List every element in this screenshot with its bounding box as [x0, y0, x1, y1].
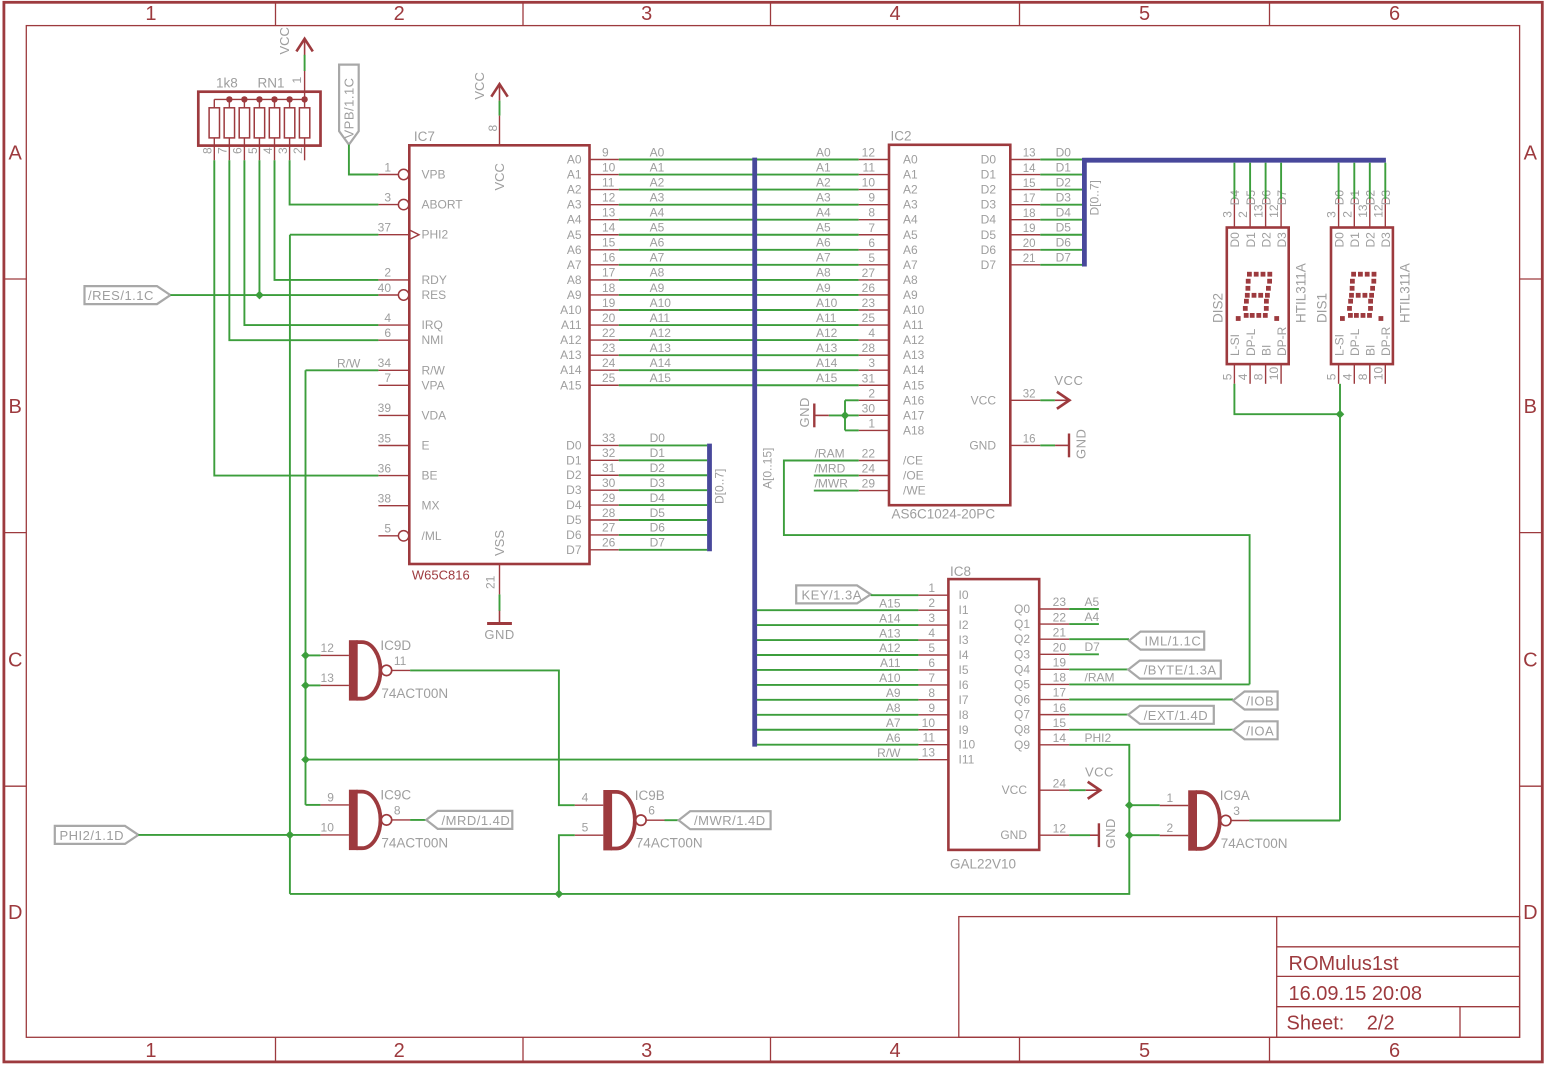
IC8 pin 7 I6 [918, 684, 948, 686]
flag IML/1.1C [1129, 632, 1204, 650]
IC2 pin 29 /WE [859, 490, 889, 492]
IC8 pin 14 Q9 [1039, 744, 1069, 746]
svg-text:A10: A10 [903, 303, 925, 317]
svg-text:3: 3 [384, 190, 391, 204]
wire D4 IC2 to bus [1040, 219, 1082, 221]
svg-text:32: 32 [602, 446, 616, 460]
IC7 pin 13 A4 [590, 219, 619, 221]
svg-text:19: 19 [1023, 223, 1036, 235]
svg-text:10: 10 [602, 160, 616, 174]
wire D5 IC2 to bus [1040, 234, 1082, 236]
svg-text:23: 23 [602, 341, 616, 355]
svg-text:A1: A1 [650, 160, 665, 174]
IC7 pin 4 IRQ [378, 324, 409, 326]
svg-text:A9: A9 [886, 686, 901, 700]
svg-text:A6: A6 [650, 236, 665, 250]
svg-text:2: 2 [291, 147, 305, 154]
wire strobe to IC9A output [1339, 414, 1341, 820]
svg-text:12: 12 [602, 190, 616, 204]
svg-text:IC9B: IC9B [635, 788, 665, 803]
IC7 pin 18 A9 [590, 294, 619, 296]
wire PHI2 net [138, 834, 320, 836]
IC8 pin 17 Q6 [1039, 699, 1069, 701]
svg-text:R/W: R/W [337, 356, 361, 370]
svg-text:5: 5 [246, 147, 260, 154]
svg-text:38: 38 [378, 492, 392, 506]
svg-text:/RAM: /RAM [815, 447, 845, 461]
wire IC2 GND [1040, 444, 1055, 446]
svg-text:A: A [1524, 142, 1538, 164]
svg-text:3: 3 [1233, 804, 1240, 818]
svg-text:VCC: VCC [472, 72, 487, 99]
IC2 pin 15 D2 [1010, 189, 1040, 191]
svg-text:27: 27 [602, 521, 616, 535]
flag /MRD/1.4D [426, 811, 512, 829]
svg-text:17: 17 [1053, 686, 1067, 700]
wire display latch strobes [1234, 384, 1340, 414]
IC8 pin 3 I2 [918, 624, 948, 626]
svg-text:1k8: 1k8 [216, 76, 238, 91]
svg-text:A15: A15 [816, 371, 838, 385]
IC8 pin 23 Q0 [1039, 608, 1069, 610]
svg-text:I1: I1 [959, 603, 969, 617]
svg-text:/EXT/1.4D: /EXT/1.4D [1144, 708, 1208, 723]
wire A13 bus to IC8 [757, 639, 919, 641]
IC7 pin 10 A1 [590, 174, 619, 176]
svg-text:37: 37 [378, 221, 392, 235]
svg-text:A2: A2 [816, 175, 831, 189]
svg-text:VCC: VCC [277, 27, 292, 54]
svg-text:A13: A13 [879, 626, 901, 640]
svg-text:D7: D7 [1056, 251, 1072, 265]
svg-text:GAL22V10: GAL22V10 [950, 857, 1016, 872]
wire A5 from Q0 [1069, 608, 1099, 610]
svg-text:25: 25 [862, 311, 876, 325]
wire D4 to DIS2 [1233, 163, 1235, 199]
wire D2 from IC7 [619, 474, 707, 476]
wire A11 bus to IC8 [757, 669, 919, 671]
svg-text:26: 26 [602, 536, 616, 550]
svg-text:/WE: /WE [903, 484, 926, 498]
svg-text:DP-R: DP-R [1379, 326, 1393, 356]
VCC symbol right of IC8 [1088, 782, 1101, 799]
IC7 pin 16 A7 [590, 264, 619, 266]
svg-text:Q9: Q9 [1014, 738, 1030, 752]
svg-text:MX: MX [422, 499, 440, 513]
svg-text:10: 10 [862, 176, 876, 190]
IC7 pin 22 A12 [590, 339, 619, 341]
svg-text:A2: A2 [903, 183, 918, 197]
svg-text:23: 23 [1053, 595, 1067, 609]
resistor network RN1 box [198, 92, 320, 146]
svg-text:A12: A12 [816, 326, 838, 340]
svg-text:A11: A11 [880, 656, 901, 670]
IC7 pin 26 D7 [590, 549, 619, 551]
svg-text:25: 25 [602, 371, 616, 385]
wire A9 [619, 294, 859, 296]
wire A8 [619, 279, 859, 281]
wire A6 [619, 249, 859, 251]
svg-text:A15: A15 [879, 596, 901, 610]
svg-text:6: 6 [1389, 1040, 1400, 1062]
svg-text:A8: A8 [886, 701, 901, 715]
svg-text:14: 14 [1053, 731, 1067, 745]
svg-text:D1: D1 [1244, 232, 1258, 248]
svg-text:D2: D2 [1364, 232, 1378, 248]
svg-text:A11: A11 [561, 318, 582, 332]
svg-text:GND: GND [1074, 429, 1089, 459]
IC2 pin 8 A4 [859, 219, 889, 221]
svg-text:A15: A15 [560, 378, 582, 392]
IC7 PHI2 clock mark [409, 230, 419, 240]
svg-text:74ACT00N: 74ACT00N [381, 686, 448, 701]
IC7 pin 23 A13 [590, 354, 619, 356]
svg-text:D7: D7 [650, 536, 666, 550]
svg-text:BI: BI [1259, 345, 1273, 356]
wire D0 to DIS1 [1338, 163, 1340, 199]
svg-text:GND: GND [1000, 828, 1027, 842]
wire D1 from IC7 [619, 459, 707, 461]
IC8 pin 6 I5 [918, 669, 948, 671]
svg-text:A18: A18 [903, 423, 925, 437]
svg-text:13: 13 [1023, 148, 1036, 160]
svg-text:A4: A4 [650, 206, 665, 220]
svg-text:1: 1 [928, 581, 935, 595]
svg-text:2: 2 [928, 596, 935, 610]
svg-text:I7: I7 [959, 693, 969, 707]
IC7 pin 32 D1 [590, 459, 619, 461]
svg-text:A12: A12 [879, 641, 901, 655]
svg-text:19: 19 [1053, 656, 1067, 670]
svg-text:13: 13 [602, 206, 616, 220]
svg-text:8: 8 [394, 803, 401, 817]
svg-text:A7: A7 [816, 251, 831, 265]
svg-text:9: 9 [327, 790, 334, 804]
IC2 pin 30 A17 [859, 414, 889, 416]
wire D6 to DIS2 [1265, 163, 1267, 199]
wire RN1-8 to BE [214, 160, 378, 475]
IC7 pin 14 A5 [590, 234, 619, 236]
svg-text:27: 27 [862, 266, 876, 280]
junction A17 GND [841, 411, 850, 420]
svg-text:A7: A7 [903, 258, 918, 272]
svg-text:D5: D5 [650, 506, 666, 520]
IC7 pin 29 D4 [590, 504, 619, 506]
wire IC9B output to flag [665, 819, 679, 821]
svg-text:14: 14 [1023, 163, 1036, 175]
svg-text:2: 2 [868, 386, 875, 400]
svg-text:A0: A0 [903, 153, 918, 167]
IC7 pin 11 A2 [590, 189, 619, 191]
svg-text:8: 8 [928, 686, 935, 700]
wire D5 to DIS2 [1249, 163, 1251, 199]
svg-text:6: 6 [868, 236, 875, 250]
IC2 pin 24 /OE [859, 475, 889, 477]
svg-text:A6: A6 [567, 243, 582, 257]
wire IML from Q2 [1069, 638, 1129, 640]
svg-text:A14: A14 [816, 356, 838, 370]
svg-text:B: B [1524, 396, 1537, 418]
svg-text:DP-L: DP-L [1348, 328, 1362, 356]
IC7 pin 28 D5 [590, 519, 619, 521]
svg-text:A5: A5 [567, 228, 582, 242]
svg-text:D4: D4 [981, 213, 997, 227]
svg-text:A4: A4 [567, 213, 582, 227]
IC7 pin 15 A6 [590, 249, 619, 251]
wire /EXT from Q7 [1069, 714, 1128, 716]
svg-text:VCC: VCC [1054, 373, 1083, 388]
wire /IOA from Q8 [1069, 729, 1233, 731]
IC8 pin 2 I1 [918, 609, 948, 611]
wire IC7 VSS to GND [499, 594, 501, 611]
svg-text:8: 8 [1252, 373, 1266, 380]
IC8 pin 13 I11 [918, 759, 948, 761]
wire D0 IC2 to bus [1040, 159, 1082, 161]
svg-text:PHI2/1.1D: PHI2/1.1D [60, 828, 124, 843]
flag /RES/1.1C [85, 286, 171, 304]
svg-text:31: 31 [862, 371, 876, 385]
svg-text:Q1: Q1 [1014, 617, 1030, 631]
wire IC9C output to flag [410, 819, 426, 821]
svg-text:I4: I4 [959, 648, 969, 662]
svg-text:20: 20 [1053, 640, 1067, 654]
wire A13 [619, 354, 859, 356]
nand IC9C [349, 790, 358, 850]
svg-text:A4: A4 [903, 213, 918, 227]
IC7 pin 3 ABORT [378, 204, 398, 206]
wire A12 [619, 339, 859, 341]
svg-text:D7: D7 [981, 258, 997, 272]
svg-text:31: 31 [602, 461, 616, 475]
DIS1 top pins [1338, 199, 1340, 228]
wire A4 from Q1 [1069, 623, 1099, 625]
svg-text:15: 15 [602, 236, 616, 250]
junction PHI2 IC9B-5 [555, 890, 564, 899]
wire D4 from IC7 [619, 504, 707, 506]
svg-text:1: 1 [145, 3, 156, 25]
wire A15 [619, 384, 859, 386]
wire D1 IC2 to bus [1040, 174, 1082, 176]
svg-text:D3: D3 [1275, 232, 1289, 248]
svg-text:I2: I2 [959, 618, 969, 632]
svg-text:A0: A0 [816, 145, 831, 159]
svg-text:3: 3 [641, 3, 652, 25]
wire D3 to DIS1 [1384, 163, 1386, 199]
wire A9 bus to IC8 [757, 699, 919, 701]
svg-text:Sheet:: Sheet: [1287, 1013, 1345, 1035]
pld IC8 box [948, 579, 1039, 850]
svg-text:4: 4 [889, 1040, 900, 1062]
svg-text:Q6: Q6 [1014, 693, 1030, 707]
svg-text:/IOA: /IOA [1246, 723, 1274, 738]
wire A8 bus to IC8 [757, 714, 919, 716]
svg-text:D2: D2 [650, 461, 666, 475]
RN1 resistors [209, 108, 219, 138]
IC7 VSS pin 21 [499, 564, 501, 594]
IC8 pin 19 Q4 [1039, 668, 1069, 670]
svg-text:4: 4 [889, 3, 900, 25]
svg-text:3: 3 [1221, 211, 1235, 218]
svg-text:D6: D6 [650, 521, 666, 535]
svg-text:/BYTE/1.3A: /BYTE/1.3A [1144, 663, 1217, 678]
svg-text:A7: A7 [886, 716, 901, 730]
svg-text:/MWR: /MWR [815, 477, 849, 491]
svg-text:D6: D6 [566, 528, 582, 542]
VCC symbol above IC7 [491, 84, 507, 97]
svg-text:I5: I5 [959, 663, 969, 677]
svg-text:D: D [8, 902, 22, 924]
svg-text:2: 2 [1340, 211, 1354, 218]
svg-text:IC7: IC7 [414, 129, 435, 144]
svg-text:2: 2 [1236, 211, 1250, 218]
svg-text:Q7: Q7 [1014, 708, 1030, 722]
IC7 pin 36 BE [378, 475, 409, 477]
svg-text:A6: A6 [886, 731, 901, 745]
svg-text:A1: A1 [567, 168, 582, 182]
svg-text:A16: A16 [903, 393, 925, 407]
RN1 internal junctions [226, 96, 232, 102]
svg-text:I11: I11 [959, 753, 975, 767]
svg-text:4: 4 [261, 147, 275, 154]
svg-text:/MWR/1.4D: /MWR/1.4D [694, 813, 766, 828]
IC8 pin 10 I9 [918, 729, 948, 731]
wire A7 [619, 264, 859, 266]
svg-text:D0: D0 [1228, 232, 1242, 248]
svg-text:1: 1 [290, 77, 304, 84]
wire D7 from IC7 [619, 549, 707, 551]
IC7 pin 6 NMI [378, 339, 409, 341]
svg-text:IC9D: IC9D [380, 638, 411, 653]
svg-text:GND: GND [797, 397, 812, 427]
svg-text:24: 24 [1053, 776, 1067, 790]
IC7 pin 33 D0 [590, 444, 619, 446]
svg-text:13: 13 [321, 671, 335, 685]
svg-text:Q5: Q5 [1014, 677, 1030, 691]
svg-text:6: 6 [384, 326, 391, 340]
RN1 internal bus [214, 98, 304, 100]
svg-text:16.09.15 20:08: 16.09.15 20:08 [1289, 983, 1422, 1005]
svg-text:A8: A8 [567, 273, 582, 287]
svg-text:D0: D0 [566, 438, 582, 452]
wire IC9A input 1 [1129, 804, 1159, 806]
svg-text:A10: A10 [560, 303, 582, 317]
svg-text:12: 12 [1053, 822, 1067, 836]
svg-text:3: 3 [928, 611, 935, 625]
svg-text:D4: D4 [650, 491, 666, 505]
wire PHI2 from Q9 [290, 745, 1129, 894]
bus D[0..7] left [707, 444, 712, 552]
svg-text:D0: D0 [1332, 232, 1346, 248]
svg-text:28: 28 [602, 506, 616, 520]
IC2 pin 14 D1 [1010, 174, 1040, 176]
VCC symbol above RN1 [296, 39, 312, 52]
wire IC2 A16-A18 to GND [844, 400, 846, 430]
IC2 pin 28 A13 [859, 354, 889, 356]
frame row ticks [4, 278, 26, 280]
svg-text:28: 28 [862, 341, 876, 355]
junction R/W IC9D-12 [301, 651, 310, 660]
wire D3 IC2 to bus [1040, 204, 1082, 206]
svg-text:VCC: VCC [971, 393, 997, 407]
wire D5 from IC7 [619, 519, 707, 521]
IC2 pin 9 A3 [859, 204, 889, 206]
svg-text:1: 1 [868, 416, 875, 430]
junction R/W to IC8 [301, 755, 310, 764]
svg-text:A3: A3 [816, 190, 831, 204]
svg-text:A7: A7 [650, 251, 665, 265]
svg-text:A15: A15 [650, 371, 672, 385]
svg-text:5: 5 [1221, 373, 1235, 380]
wire IC8 VCC [1069, 789, 1086, 791]
svg-text:D2: D2 [981, 183, 997, 197]
IC7 pin 39 VDA [378, 414, 409, 416]
svg-text:74ACT00N: 74ACT00N [636, 836, 703, 851]
svg-text:A12: A12 [650, 326, 672, 340]
svg-text:13: 13 [922, 746, 936, 760]
svg-text:A5: A5 [650, 221, 665, 235]
svg-text:33: 33 [602, 431, 616, 445]
IC2 pin 19 D5 [1010, 234, 1040, 236]
svg-text:12: 12 [321, 641, 335, 655]
wire A0 [619, 159, 859, 161]
wire IC9B input 5 [559, 835, 575, 894]
svg-text:9: 9 [602, 145, 609, 159]
svg-text:/RAM: /RAM [1085, 670, 1115, 684]
svg-text:8: 8 [1356, 373, 1370, 380]
IC2 pin 4 A12 [859, 339, 889, 341]
wire /IOB from Q6 [1069, 699, 1233, 701]
svg-text:I6: I6 [959, 678, 969, 692]
IC2 pin 6 A6 [859, 249, 889, 251]
svg-text:26: 26 [862, 281, 876, 295]
svg-text:A12: A12 [560, 333, 582, 347]
IC8 pin 15 Q8 [1039, 729, 1069, 731]
IC2 pin 20 D6 [1010, 249, 1040, 251]
svg-text:A17: A17 [903, 408, 925, 422]
svg-text:VCC: VCC [1085, 765, 1114, 780]
svg-text:DP-L: DP-L [1244, 328, 1258, 356]
wire IC9D inputs [306, 654, 321, 656]
IC8 pin 1 I0 [918, 594, 948, 596]
nand IC9A [1188, 790, 1197, 850]
IC2 pin 26 A9 [859, 294, 889, 296]
svg-text:D: D [1523, 902, 1537, 924]
svg-text:D3: D3 [650, 476, 666, 490]
IC2 pin 27 A8 [859, 279, 889, 281]
svg-text:A10: A10 [650, 296, 672, 310]
svg-text:PHI2: PHI2 [422, 228, 449, 242]
wire D7 to DIS2 [1280, 163, 1282, 199]
svg-text:22: 22 [1053, 610, 1067, 624]
svg-text:RDY: RDY [422, 273, 447, 287]
IC8 pin 24 VCC [1039, 789, 1069, 791]
svg-text:Q4: Q4 [1014, 662, 1030, 676]
svg-text:A3: A3 [903, 198, 918, 212]
svg-text:A15: A15 [903, 378, 925, 392]
svg-text:D0: D0 [1056, 145, 1072, 159]
svg-text:A3: A3 [650, 190, 665, 204]
IC8 pin 16 Q7 [1039, 714, 1069, 716]
svg-text:ROMulus1st: ROMulus1st [1289, 953, 1399, 975]
wire KEY to IC8 I0 [871, 594, 919, 596]
wire A7 bus to IC8 [757, 729, 919, 731]
svg-text:18: 18 [602, 281, 616, 295]
IC7 pin 25 A15 [590, 384, 619, 386]
IC2 pin 7 A5 [859, 234, 889, 236]
svg-text:74ACT00N: 74ACT00N [1221, 836, 1288, 851]
wire A14 bus to IC8 [757, 624, 919, 626]
svg-text:2: 2 [384, 266, 391, 280]
